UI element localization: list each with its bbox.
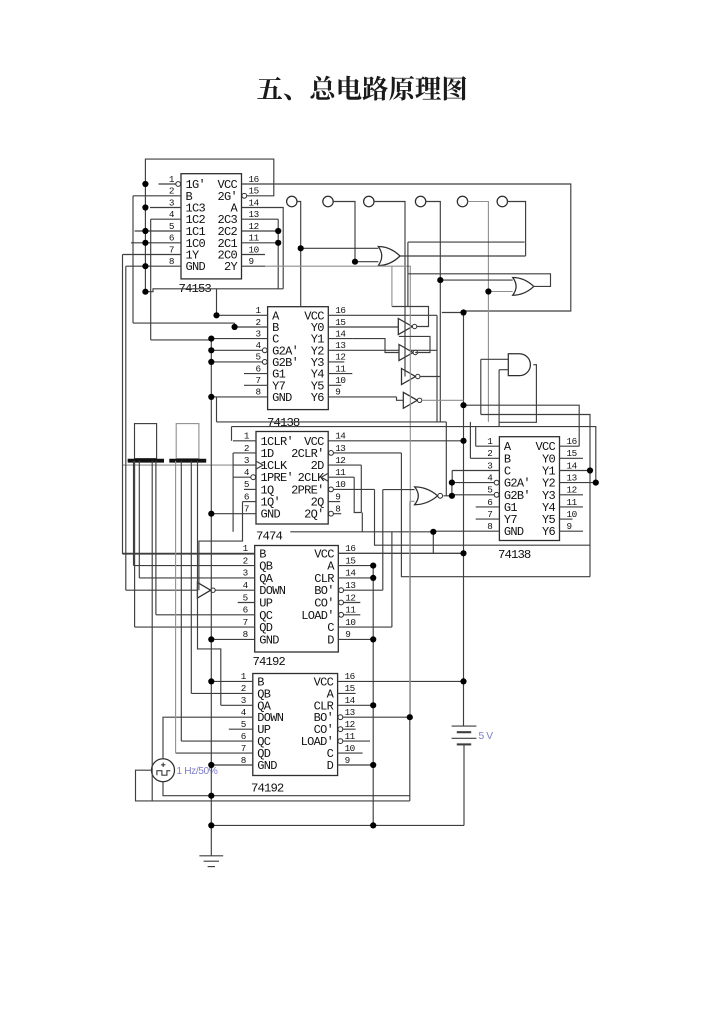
7474 pin 12 (2D) <box>328 464 361 466</box>
74192B pin 7 (QD) <box>176 752 253 754</box>
svg-text:3: 3 <box>169 197 174 208</box>
svg-text:2: 2 <box>243 555 248 566</box>
74153 pin 5 (1C1) <box>135 230 181 232</box>
74138A pin 2 (B) <box>235 326 268 328</box>
74153 pin 15 (2G') <box>242 195 266 197</box>
74192A pin 13 (BO') <box>338 589 383 591</box>
74153 pin 10 (2C0) <box>242 254 266 256</box>
svg-text:7: 7 <box>487 509 492 520</box>
indicator probe X4 <box>415 196 425 206</box>
svg-text:5: 5 <box>243 592 248 603</box>
IC 74192A body <box>255 546 339 653</box>
probe X6 lead <box>508 202 526 256</box>
74138A pin 5 (G2B') <box>211 361 267 363</box>
svg-text:2: 2 <box>241 683 246 694</box>
svg-text:D: D <box>327 633 334 647</box>
wire 2CLK down <box>354 477 361 512</box>
svg-text:5: 5 <box>256 352 261 363</box>
74192A pin 8 (GND) <box>211 638 254 640</box>
junction VCC 7474 <box>460 438 466 444</box>
svg-text:11: 11 <box>335 363 346 374</box>
wire 74138A GND drop <box>216 397 218 422</box>
svg-text:2: 2 <box>487 448 492 459</box>
svg-text:Y6: Y6 <box>311 391 325 405</box>
wire VCC spur <box>442 312 464 314</box>
74138A pin 4 (G2A') <box>211 349 267 351</box>
wire clock to DOWN2 <box>163 717 164 759</box>
74138A pin 9 (Y6) <box>328 396 396 398</box>
svg-text:74138: 74138 <box>498 548 531 562</box>
junction OR1 in2 <box>352 259 358 265</box>
svg-text:8: 8 <box>169 256 174 267</box>
wire X4 drop lower <box>439 280 441 422</box>
svg-text:11: 11 <box>345 731 356 742</box>
7474 pin 3 (1CLK) <box>233 464 256 466</box>
74192A pin 9 (D) <box>338 638 373 640</box>
74138B pin 7 (Y7) <box>476 518 500 520</box>
7474 pin 6 (1Q') <box>243 501 257 503</box>
inverter U3D (Y6) <box>403 392 417 408</box>
7474 pin 2 (1D) <box>233 452 256 454</box>
74138B pin 1 (A) <box>476 445 500 447</box>
74138B pin 6 (G1) <box>476 506 500 508</box>
svg-text:12: 12 <box>567 485 577 496</box>
74192B pin 11 (LOAD') <box>338 740 370 742</box>
title 五、总电路原理图 <box>257 76 466 101</box>
wire C tie <box>451 471 453 483</box>
wire bracket down <box>361 513 363 532</box>
wire Y2/VCC vertical <box>436 315 438 422</box>
wire AND out <box>499 365 536 423</box>
wire Y6 to inv4 <box>397 397 404 400</box>
junction 74138A A <box>213 312 219 318</box>
74138A pin 10 (Y5) <box>328 384 341 386</box>
wire A down to 74138A pin1 <box>216 289 218 316</box>
junction <box>142 228 148 234</box>
wire OR2 out loop <box>408 274 551 287</box>
wire VCC A to bus <box>338 552 463 554</box>
svg-text:5: 5 <box>241 719 246 730</box>
svg-text:12: 12 <box>345 592 355 603</box>
junction 74138A B <box>232 324 238 330</box>
svg-text:16: 16 <box>345 543 355 554</box>
svg-text:Y6: Y6 <box>542 525 556 539</box>
74192A pin 1 (B) <box>123 552 255 554</box>
svg-text:8: 8 <box>487 521 492 532</box>
7474 2CLK edge-trigger mark <box>321 473 328 481</box>
wire mid bus vertical <box>372 566 374 826</box>
svg-text:GND: GND <box>261 508 281 522</box>
wire 2Y to inv loop <box>391 266 393 306</box>
junction bus C <box>208 336 214 342</box>
74153 pin 8 (GND) <box>126 265 181 267</box>
wire top bar <box>408 241 525 243</box>
wire BO1 up to NOR <box>382 490 384 591</box>
wire Y1 to inv2 <box>352 339 399 353</box>
svg-text:2: 2 <box>169 186 174 197</box>
74153 pin 2 (B) <box>133 195 181 197</box>
7474 pin 7 (GND) <box>211 513 256 515</box>
wire GND row to A drop <box>145 289 283 292</box>
svg-text:1: 1 <box>241 671 247 682</box>
display connector J1 <box>135 424 157 459</box>
7474 pin 4 (1PRE') <box>233 476 256 478</box>
svg-text:7: 7 <box>244 504 249 515</box>
inverter U3B (Y1) <box>399 345 413 361</box>
wire 2D down <box>360 465 362 512</box>
svg-text:5 V: 5 V <box>479 731 494 742</box>
svg-text:14: 14 <box>249 197 260 208</box>
wire AND in1 vertical <box>480 359 482 414</box>
junction <box>142 289 148 295</box>
74192B pin 5 (UP) <box>229 728 253 730</box>
junction OR2 in1 <box>437 277 443 283</box>
wire left bus vertical <box>210 339 212 826</box>
junction bus GND <box>208 394 214 400</box>
wire 1Y vertical <box>122 255 124 555</box>
probe X5 lead <box>468 202 489 292</box>
svg-text:11: 11 <box>335 467 346 478</box>
74138A pin 14 (Y1) <box>328 338 352 340</box>
svg-text:11: 11 <box>249 233 260 244</box>
svg-text:7: 7 <box>243 617 248 628</box>
74192B pin 6 (QC) <box>181 740 253 742</box>
wire clock left frame <box>136 770 153 801</box>
svg-text:12: 12 <box>335 455 345 466</box>
IC 74153 body <box>181 174 242 279</box>
svg-text:13: 13 <box>567 472 577 483</box>
74192A pin 11 (LOAD') <box>338 614 360 616</box>
wire J2c to QB2 <box>190 461 192 694</box>
74138B pin 11 (Y4) <box>560 506 584 508</box>
junction G2A <box>449 480 455 486</box>
svg-text:14: 14 <box>567 460 578 471</box>
svg-text:9: 9 <box>345 629 350 640</box>
svg-text:74138: 74138 <box>267 416 300 430</box>
wire 1C2 vertical <box>150 219 152 340</box>
junction VCC loop <box>460 309 466 315</box>
svg-text:10: 10 <box>249 244 259 255</box>
74138A pin 16 (VCC) <box>328 314 437 316</box>
74153 pin 7 (1Y) <box>123 254 182 256</box>
junction Y2 <box>593 480 599 486</box>
junction G2B <box>449 493 455 499</box>
IC 74138B body <box>499 437 559 541</box>
wire 74138B GND drop <box>432 532 434 554</box>
7474 pin 8 (2Q') <box>328 513 341 515</box>
wire frame left <box>125 266 127 590</box>
wire X5 to OR2 in2 <box>488 291 512 293</box>
junction <box>275 240 281 246</box>
74138B pin 3 (C) <box>452 470 499 472</box>
svg-text:6: 6 <box>244 491 249 502</box>
74192B pin 12 (CO') <box>338 728 356 730</box>
svg-text:10: 10 <box>345 743 355 754</box>
wire 1Y to 74192A B <box>123 553 255 555</box>
svg-text:3: 3 <box>243 568 248 579</box>
74153 pin 14 (A) <box>242 207 266 209</box>
svg-text:7: 7 <box>241 743 246 754</box>
svg-text:GND: GND <box>504 525 524 539</box>
wire Y1 vertical <box>589 471 591 577</box>
svg-text:14: 14 <box>335 431 346 442</box>
7474 pin 1 (1CLR') <box>233 440 256 442</box>
wire 1C2 to bus <box>151 339 212 341</box>
inverter U3A (Y0) <box>398 319 412 335</box>
74192B pin 1 (B) <box>211 680 253 682</box>
74192B pin 4 (DOWN) <box>164 716 253 718</box>
junction bus 7474 GND <box>208 511 214 517</box>
junction VCC 74192B <box>460 678 466 684</box>
junction bus G2B <box>208 359 214 365</box>
svg-text:GND: GND <box>186 260 206 274</box>
inverter U6 (DOWN line) <box>197 582 210 598</box>
svg-text:5: 5 <box>169 221 174 232</box>
wire G2A spur <box>451 482 453 484</box>
wire B-line to Y1 74138B <box>481 415 590 471</box>
74153 pin 1 (1G') <box>159 183 182 185</box>
74138B pin 9 (Y6) <box>560 530 584 532</box>
7474 pin 11 (2CLK) <box>328 476 354 478</box>
junction OR1 in1 <box>298 245 304 251</box>
indicator probe X3 <box>364 196 374 206</box>
wire NOR in1 <box>383 489 415 491</box>
7474 pin 13 (2CLR') <box>328 452 401 454</box>
svg-text:3: 3 <box>256 328 261 339</box>
junction <box>142 263 148 269</box>
74138B pin 12 (Y3) <box>560 494 584 496</box>
74153 pin 4 (1C2) <box>151 218 181 220</box>
74192A pin 12 (CO') <box>338 602 360 604</box>
junction bus GND2 <box>208 762 214 768</box>
wire J1c to QD1 <box>134 461 136 627</box>
svg-text:2: 2 <box>244 443 249 454</box>
7474 pin 9 (2Q) <box>328 501 340 503</box>
74138B pin 2 (B) <box>470 457 499 459</box>
svg-text:4: 4 <box>241 707 247 718</box>
wire to inverter U6 <box>126 589 198 591</box>
svg-text:6: 6 <box>169 233 174 244</box>
wire battery bottom <box>463 744 465 825</box>
74138B pin 15 (Y0) <box>560 457 584 459</box>
wire VCC top loop <box>265 184 571 311</box>
junction <box>142 240 148 246</box>
wire J1d bottom long <box>152 461 410 801</box>
junction bus B2 <box>208 678 214 684</box>
74153 pin 11 (2C1) <box>242 242 279 244</box>
wire label line <box>217 421 447 423</box>
wire A from 74153 <box>265 208 283 289</box>
74153 pin 16 (VCC) <box>242 183 266 185</box>
wire drop 407 lower <box>407 274 409 307</box>
74138B pin 4 (G2A') <box>452 482 499 484</box>
svg-text:13: 13 <box>335 443 345 454</box>
junction Y1 <box>587 467 593 473</box>
74138A pin 6 (G1) <box>244 373 268 375</box>
wire J1a to QB1 <box>133 461 135 566</box>
clock source V1 1Hz/50% <box>152 759 175 782</box>
svg-text:3: 3 <box>241 695 246 706</box>
7474 pin 5 (1Q) <box>244 488 256 490</box>
svg-text:7474: 7474 <box>256 530 282 544</box>
wire C-line long <box>232 427 596 483</box>
wire OR1 out to X6 drop <box>400 255 526 257</box>
74138A pin 8 (GND) <box>211 396 267 398</box>
svg-text:10: 10 <box>335 479 345 490</box>
svg-text:9: 9 <box>335 387 340 398</box>
74138B pin 5 (G2B') <box>452 494 499 496</box>
wire A-line to VCC 74138B <box>464 405 580 446</box>
wire inv4 out <box>422 399 464 401</box>
svg-text:12: 12 <box>249 221 259 232</box>
wire G2B spur <box>451 495 453 497</box>
wire AND in1 spur <box>481 358 509 360</box>
wire BO2 down <box>409 717 411 801</box>
wire below 7474 label to GND 74138B <box>290 531 433 533</box>
svg-text:2: 2 <box>256 317 261 328</box>
74153 pin 6 (1C0) <box>131 242 181 244</box>
74192B pin 2 (QB) <box>191 692 253 694</box>
wire 1Q' route to inverter <box>199 502 243 591</box>
wire B to 74138A <box>133 322 235 324</box>
wire J2d to QA2 <box>198 461 221 706</box>
svg-text:14: 14 <box>335 328 346 339</box>
svg-text:GND: GND <box>257 759 277 773</box>
74138B pin 10 (Y5) <box>560 518 573 520</box>
junction D2 <box>370 762 376 768</box>
svg-text:2Q': 2Q' <box>304 508 324 522</box>
junction A1 <box>370 563 376 569</box>
junction <box>142 204 148 210</box>
74192A pin 10 (C) <box>338 626 392 628</box>
ground bar 1 <box>199 855 223 857</box>
svg-text:5: 5 <box>487 485 492 496</box>
wire VCC bus vertical <box>463 311 465 726</box>
junction VCC A-line <box>460 402 466 408</box>
svg-text:10: 10 <box>345 617 355 628</box>
wire drop to NOR out <box>445 422 447 496</box>
battery plate long 1 <box>452 725 477 727</box>
74138A pin 15 (Y0) <box>328 326 398 328</box>
74138A pin 3 (C) <box>211 338 267 340</box>
svg-text:3: 3 <box>487 460 492 471</box>
indicator probe X1 <box>287 196 297 206</box>
IC 7474 body <box>256 432 328 525</box>
svg-text:13: 13 <box>335 340 345 351</box>
svg-text:13: 13 <box>249 209 259 220</box>
wire NOR in2 vertical (light) <box>409 501 411 717</box>
74192B pin 13 (BO') <box>338 716 410 718</box>
wire 74138B B up <box>469 422 471 459</box>
7474 pin 10 (2PRE') <box>328 488 374 490</box>
junction D1 <box>370 636 376 642</box>
svg-text:74192: 74192 <box>251 782 284 796</box>
74192B pin 16 (VCC) <box>338 680 464 682</box>
inverter U3C <box>402 369 416 385</box>
svg-text:10: 10 <box>567 509 577 520</box>
74192B pin 8 (GND) <box>211 764 253 766</box>
probe X1 lead <box>297 202 301 307</box>
wire 2PRE route <box>375 489 591 545</box>
ground stem <box>210 825 212 855</box>
74153 pin 12 (2C2) <box>242 230 279 232</box>
svg-text:12: 12 <box>345 719 355 730</box>
svg-text:4: 4 <box>256 340 262 351</box>
junction BO2 <box>407 714 413 720</box>
wire inv2 out loop <box>399 336 430 352</box>
svg-text:10: 10 <box>335 375 345 386</box>
74192B pin 3 (QA) <box>221 704 253 706</box>
svg-text:6: 6 <box>243 605 248 616</box>
74153 pin 9 (2Y) <box>242 265 266 267</box>
svg-text:74192: 74192 <box>253 655 286 669</box>
74192A pin 5 (UP) <box>238 602 255 604</box>
svg-text:15: 15 <box>335 317 345 328</box>
svg-text:8: 8 <box>335 504 340 515</box>
svg-text:15: 15 <box>249 186 259 197</box>
svg-text:8: 8 <box>243 629 248 640</box>
svg-text:6: 6 <box>256 363 261 374</box>
svg-text:1: 1 <box>256 305 262 316</box>
74138A pin 13 (Y2) <box>328 349 437 351</box>
svg-text:9: 9 <box>249 256 254 267</box>
IC 74138A body <box>268 307 329 410</box>
svg-text:3: 3 <box>244 455 249 466</box>
svg-text:14: 14 <box>345 568 356 579</box>
wire 1G-2G loop <box>145 159 273 196</box>
74192A pin 3 (QA) <box>139 577 254 579</box>
battery plate short 2 <box>457 743 471 745</box>
svg-text:8: 8 <box>241 755 246 766</box>
74138A pin 11 (Y4) <box>328 373 352 375</box>
indicator probe X2 <box>323 196 333 206</box>
74138A pin 7 (Y7) <box>244 384 268 386</box>
wire G2A-G2B tie <box>451 483 453 496</box>
wire drop 407 <box>407 242 409 274</box>
svg-text:16: 16 <box>345 671 355 682</box>
svg-text:GND: GND <box>272 391 292 405</box>
wire inv1 out loop <box>392 307 429 327</box>
battery plate short 1 <box>457 731 471 733</box>
ground bar 3 <box>208 866 215 868</box>
junction CLR2 <box>370 702 376 708</box>
junction gnd rail <box>208 822 214 828</box>
wire B join <box>234 323 236 327</box>
74192A pin 14 (CLR) <box>338 577 373 579</box>
wire X2 to OR1 in2 <box>355 261 378 263</box>
svg-text:6: 6 <box>487 497 492 508</box>
wire 1D down <box>232 453 234 532</box>
wire 2C3 tie down <box>277 219 279 289</box>
74138A pin 1 (A) <box>217 314 268 316</box>
74192A pin 16 (VCC) <box>338 552 463 554</box>
svg-text:11: 11 <box>345 605 356 616</box>
junction CLR1 <box>370 575 376 581</box>
AND gate U4 <box>508 354 530 376</box>
junction OR2 in2 <box>485 288 491 294</box>
wire J2a to QD2 <box>175 461 177 753</box>
74153 pin 13 (2C3) <box>242 218 279 220</box>
ground bar 2 <box>204 860 219 862</box>
74138B pin 16 (VCC) <box>560 445 580 447</box>
7474 1CLK edge-trigger mark <box>256 461 263 469</box>
74192A pin 15 (A) <box>338 565 373 567</box>
svg-text:7: 7 <box>169 244 174 255</box>
junction GND 74138B <box>430 529 436 535</box>
wire NOR out <box>444 495 452 497</box>
svg-text:16: 16 <box>335 305 345 316</box>
svg-text:13: 13 <box>345 707 355 718</box>
